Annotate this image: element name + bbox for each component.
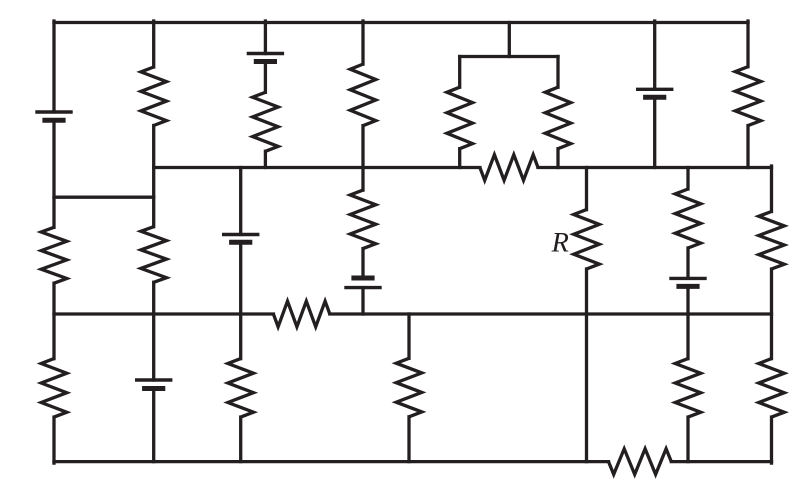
- wire: [770, 269, 773, 359]
- wire third rail left segment: [54, 312, 273, 315]
- resistor R17: [228, 359, 254, 418]
- wire: [407, 314, 410, 358]
- wire: [152, 21, 155, 67]
- battery V1: [35, 110, 72, 113]
- wire: [653, 21, 656, 89]
- resistor R14: [759, 212, 785, 270]
- resistor R20: [759, 359, 785, 418]
- resistor R7: [545, 87, 571, 149]
- wire bottom rail left segment: [54, 460, 609, 463]
- wire: [264, 62, 267, 93]
- wire: [52, 120, 55, 227]
- wire: [556, 149, 559, 168]
- wire: [361, 126, 364, 190]
- wire: [746, 126, 749, 168]
- battery V3: [636, 88, 673, 91]
- wire: [239, 242, 242, 358]
- wire: [686, 286, 689, 358]
- resistor R8 (series in second rail): [480, 155, 538, 181]
- resistor R: [574, 210, 600, 269]
- resistor R19: [675, 359, 701, 418]
- wire stub to parallel pair: [508, 23, 511, 57]
- wire: [686, 168, 689, 190]
- wire: [52, 417, 55, 463]
- wire: [746, 21, 749, 67]
- wire: [556, 57, 559, 88]
- resistor R11: [350, 190, 376, 249]
- resistor R2: [253, 92, 279, 151]
- resistor R12: [675, 189, 701, 248]
- wire: [770, 166, 773, 212]
- wire: [361, 21, 364, 64]
- wire: [152, 282, 155, 380]
- wire: [361, 249, 364, 278]
- wire: [407, 417, 410, 462]
- resistor R1: [141, 67, 167, 126]
- wire link left column to node: [54, 196, 154, 199]
- wire second rail left segment: [154, 166, 480, 169]
- wire: [770, 417, 773, 463]
- wire: [152, 389, 155, 462]
- wire: [585, 269, 588, 462]
- wire: [686, 417, 689, 462]
- battery V7: [135, 378, 172, 381]
- resistor R10: [141, 227, 167, 283]
- wire parallel-pair top bar: [460, 55, 558, 58]
- resistor R3: [350, 64, 376, 126]
- wire: [585, 168, 588, 210]
- wire top rail: [54, 21, 748, 24]
- battery V6: [669, 277, 706, 280]
- wire: [361, 288, 364, 314]
- resistor R21 (series in bottom rail): [609, 449, 672, 475]
- wire: [239, 168, 242, 235]
- wire: [458, 149, 461, 168]
- resistor R6: [447, 87, 473, 149]
- wire: [52, 283, 55, 358]
- wire bottom rail right segment: [671, 460, 771, 463]
- battery V2: [247, 52, 284, 55]
- resistor R18: [396, 358, 422, 417]
- wire third rail right segment: [330, 312, 772, 315]
- resistor R16: [41, 359, 67, 418]
- resistor R5: [735, 67, 761, 126]
- wire: [152, 126, 155, 227]
- resistor R9: [41, 227, 67, 283]
- resistor R13 (series in third rail): [273, 301, 329, 327]
- battery V5 (inverted): [351, 276, 374, 281]
- wire: [458, 57, 461, 88]
- wire: [52, 21, 55, 112]
- wire second rail right segment: [538, 166, 772, 169]
- battery V4: [222, 233, 259, 236]
- wire: [686, 248, 689, 278]
- wire: [653, 97, 656, 167]
- wire: [239, 417, 242, 462]
- label R: [551, 233, 568, 252]
- wire: [264, 21, 267, 54]
- wire: [264, 151, 267, 167]
